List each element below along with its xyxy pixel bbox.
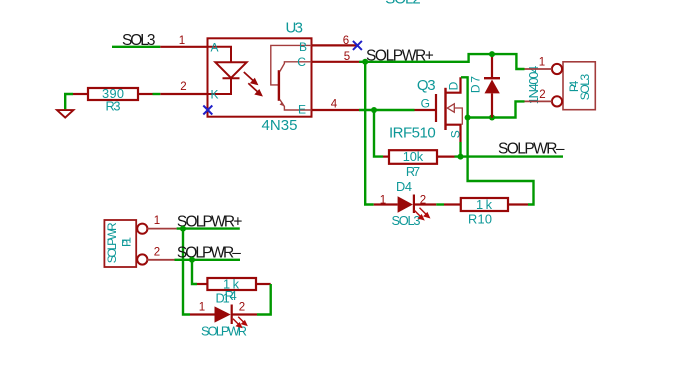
optocoupler U3 body [208,38,312,116]
wire SOLPWR- net [455,155,564,157]
svg-text:IRF510: IRF510 [389,125,436,142]
wire U3 pin4 to gate [359,109,415,111]
svg-text:U3: U3 [286,19,304,36]
svg-text:B: B [299,40,307,54]
wire SOLPWR+ rail down to D4 [365,62,374,205]
svg-text:G: G [421,97,430,111]
wire SOLPWR+ bottom [177,227,240,229]
junction D7 bottom [489,115,495,121]
svg-text:2: 2 [420,194,426,206]
svg-text:5: 5 [344,51,350,63]
wire SOLPWR+ net [359,54,525,69]
wire gate tee down to R7 [374,110,383,157]
junction SOLPWR+ [362,59,368,65]
wire D1 to R4 right [257,284,271,315]
channel bar Q3 [444,88,446,130]
pin 6 of U3 [312,44,358,46]
pin wires of R4 [197,283,207,285]
svg-text:Q3: Q3 [417,77,436,94]
pin 5 of U3 [312,61,360,63]
pin 1 of P1 [147,228,177,230]
no-connect X at U3 pin 3 [203,106,212,115]
anode pin D7 [491,93,493,117]
junction source on SOLPWR- [458,154,464,160]
svg-text:1: 1 [539,56,545,68]
no-connect X at pin 6 [353,41,362,50]
svg-text:1: 1 [154,215,160,227]
svg-text:K: K [211,88,219,102]
svg-text:R3: R3 [106,99,121,114]
resistor R7 [389,150,437,164]
diode D1 (LED) [190,313,215,315]
pin 2 of P4 [525,100,553,102]
wire R3 to U3 pin2 [153,93,161,95]
wire SOL3 label to pin1 [112,46,160,48]
svg-text:D1: D1 [216,291,230,306]
pin 2 of P1 [147,259,175,261]
diode D7 [491,54,493,78]
junction P1 pin2 [189,257,195,263]
svg-text:2: 2 [154,246,160,258]
pin 2 of U3 [160,93,207,95]
pin 1 of U3 [160,46,207,48]
svg-text:A: A [211,40,219,54]
resistor R3 [88,88,138,100]
pin wires of R3 [73,93,88,95]
svg-text:10k: 10k [403,149,424,164]
svg-text:D7: D7 [469,76,483,93]
pin 1 of P4 [525,68,553,70]
connector P1 [104,220,136,267]
wire P1 pin2 down to R4 [192,260,197,284]
svg-text:C: C [297,55,306,69]
wire drain to rail [461,77,468,117]
gate bar Q3 [435,94,437,122]
svg-text:SOL2: SOL2 [385,0,420,8]
svg-text:E: E [298,103,306,117]
svg-text:2: 2 [239,302,245,314]
pin wires of R7 [383,156,388,158]
svg-text:SOLPWR: SOLPWR [105,222,119,263]
wire P1 pin1 down to D1 [183,229,190,315]
LED arrows D4 [414,208,429,220]
substrate arrow Q3 [447,104,454,112]
ground [57,110,73,118]
junction D7 top [489,51,495,57]
gate pin wire Q3 [415,109,437,111]
resistor R10 [461,198,508,211]
svg-text:D: D [447,81,461,90]
wire drain rail down to R10 [468,118,534,205]
resistor R4 [207,278,256,290]
wire source down [459,142,461,157]
drain lead Q3 [446,77,461,92]
svg-text:R7: R7 [406,164,420,179]
junction gate tee [371,107,377,113]
LED emitter inside U3 [208,47,232,63]
svg-text:6: 6 [343,35,349,47]
phototransistor inside U3 [271,45,312,85]
junction drain rail [465,115,471,121]
svg-text:SOL3: SOL3 [578,73,592,100]
pin 4 of U3 [312,109,360,111]
svg-text:2: 2 [180,81,186,93]
svg-text:P1: P1 [119,237,133,247]
svg-text:SOLPWR–: SOLPWR– [498,141,565,158]
svg-text:D4: D4 [396,179,412,194]
source lead Q3 [446,125,461,142]
svg-text:R10: R10 [468,212,492,227]
LED arrows D1 [233,317,247,328]
LED emission arrows U3 [244,72,262,95]
junction P1 pin1 [180,226,186,232]
svg-text:2: 2 [539,89,545,101]
svg-text:SOL3: SOL3 [392,213,421,228]
svg-text:1: 1 [179,35,185,47]
wire drain rail to P4 pin2 [468,101,525,117]
wire R3 to ground [65,94,73,109]
wire D4 to R10 [436,203,444,205]
connector P4 [563,62,595,110]
pin wires of R10 [444,203,461,205]
svg-text:4: 4 [331,99,338,111]
svg-text:4N35: 4N35 [262,117,298,134]
svg-text:1: 1 [199,302,205,314]
svg-text:1: 1 [380,194,386,206]
wire SOLPWR- bottom [175,259,241,261]
